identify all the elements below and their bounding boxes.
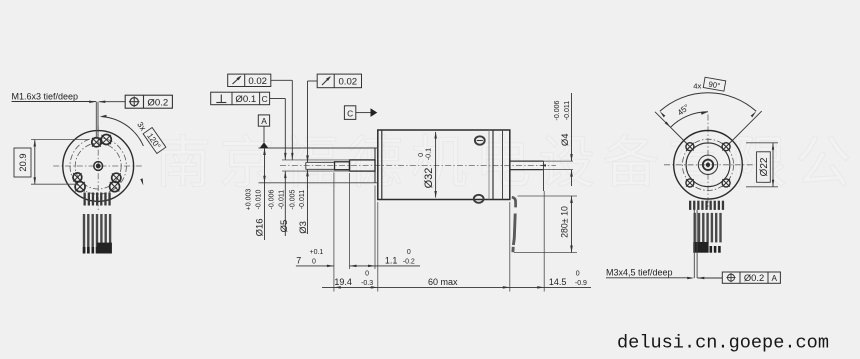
centerline horizontal [664,164,755,166]
svg-text:Ø32: Ø32 [423,168,435,189]
svg-text:1.1: 1.1 [385,255,398,265]
svg-text:Ø0.1: Ø0.1 [235,94,256,105]
svg-text:-0.010: -0.010 [255,189,262,209]
ribbon cable left view [83,193,112,254]
dim 280 +/-10 [514,196,577,253]
svg-text:-0.2: -0.2 [403,258,415,265]
svg-text:-0.3: -0.3 [361,280,373,287]
svg-text:-0.011: -0.011 [299,190,306,209]
outer circle [63,131,134,202]
hole D (lower-left outer) [75,182,85,192]
label M1.6x3 tief/deep [12,91,126,139]
dim dia5 + perpendicularity leader [269,99,290,237]
45deg radial lines [655,111,762,145]
centerline vertical [707,115,709,209]
ext lines dia5 [282,159,350,161]
svg-text:-0.011: -0.011 [564,101,571,120]
svg-text:14.5: 14.5 [549,277,567,287]
dim dia22 [746,143,778,187]
svg-text:M3x4,5 tief/deep: M3x4,5 tief/deep [606,267,673,277]
ribbon cable right view [689,201,724,253]
body screw top [475,136,485,144]
datum C flag [344,106,377,120]
svg-text:0.02: 0.02 [338,77,357,88]
svg-text:4x: 4x [693,82,701,91]
svg-text:-0.006: -0.006 [269,189,276,209]
datum A flag [258,115,269,148]
body screw bottom [474,195,484,203]
centerline vertical [97,126,99,210]
svg-text:-0.006: -0.006 [554,100,561,120]
M3 hole 4 [722,179,730,187]
right view: motor rear face [664,115,755,209]
svg-text:-0.011: -0.011 [279,190,286,209]
svg-text:20.9: 20.9 [18,153,28,171]
svg-text:-0.005: -0.005 [289,189,296,209]
svg-text:0: 0 [407,249,411,256]
gdt box position dia0.2 (left view) [125,95,172,108]
svg-text:C: C [347,108,353,118]
shaft middle section [335,162,350,170]
bolt circle outer [70,138,126,194]
hole E (lower-right inner) [112,173,121,182]
dim 20.9 [14,140,89,185]
outer circle [674,131,743,200]
svg-text:delusi.cn.goepe.com: delusi.cn.goepe.com [617,333,829,354]
arc 45 [665,103,708,128]
svg-text:Ø0.2: Ø0.2 [147,97,168,108]
M3 hole 2 [722,143,730,151]
svg-text:60 max: 60 max [428,277,458,287]
left view: motor front face [53,126,143,210]
svg-text:M1.6x3 tief/deep: M1.6x3 tief/deep [12,91,79,101]
svg-text:Ø0.2: Ø0.2 [744,272,764,283]
centerline [280,165,556,167]
hole A (top inner) [92,138,101,147]
label M3x4,5 tief/deep [606,210,722,279]
svg-text:0: 0 [312,258,316,265]
dim dia3 + runout leader [289,81,317,234]
shaft dia5 section [350,160,376,171]
svg-text:+0.1: +0.1 [309,249,323,256]
gdt box circular runout 0.02 (left) [228,74,271,87]
hole C (lower-left inner) [73,173,82,182]
bolt circle inner [75,143,121,189]
dim dia4 [544,93,574,186]
M3 hole 1 [686,143,694,151]
svg-text:-0.1: -0.1 [424,148,433,160]
svg-text:Ø22: Ø22 [759,157,770,176]
gdt box perpendicularity dia0.1 C [211,92,270,105]
hub circles [698,155,717,174]
dim dia32 [416,132,437,199]
centerline horizontal [53,165,143,167]
svg-text:Ø16: Ø16 [255,218,266,236]
svg-text:Ø4: Ø4 [560,133,571,146]
shaft dia3 tip [306,162,335,169]
dim dia16 [245,148,265,240]
svg-text:0.02: 0.02 [248,76,267,87]
svg-text:C: C [262,94,268,104]
svg-text:0: 0 [576,270,580,277]
motor body [378,130,510,200]
bottom dims row1: 7 and 1.1 [296,173,420,292]
svg-text:Ø3: Ø3 [298,221,309,234]
runout leader 1 [271,80,294,160]
hole F (lower-right outer) [110,182,120,192]
front boss dia16 [259,148,378,183]
arc 4x90 [660,77,756,117]
hole B (top outer) [101,135,111,145]
bottom dims row2: 19.4 / 60 max / 14.5 [322,191,591,292]
svg-text:19.4: 19.4 [334,277,352,287]
svg-text:A: A [771,274,777,283]
center hub [94,162,103,171]
svg-text:7: 7 [296,255,301,265]
rear cable (side view) [512,197,516,252]
dim 3x120deg arc [100,115,166,186]
gdt box position dia0.2 A (right view) [722,272,780,283]
svg-text:A: A [261,116,267,126]
svg-text:+0.003: +0.003 [245,189,252,211]
svg-text:0: 0 [365,271,369,278]
M3 hole 3 [686,179,694,187]
svg-text:南京福德机电设备有限公司: 南京福德机电设备有限公司 [155,131,860,194]
dia22 circle [686,143,730,187]
svg-text:-0.9: -0.9 [575,280,587,287]
svg-text:280± 10: 280± 10 [560,206,570,238]
svg-text:Ø5: Ø5 [279,220,290,233]
gdt box circular runout 0.02 (right) [317,74,361,88]
rear shaft dia4 [510,161,546,191]
bolt circle [682,139,733,190]
